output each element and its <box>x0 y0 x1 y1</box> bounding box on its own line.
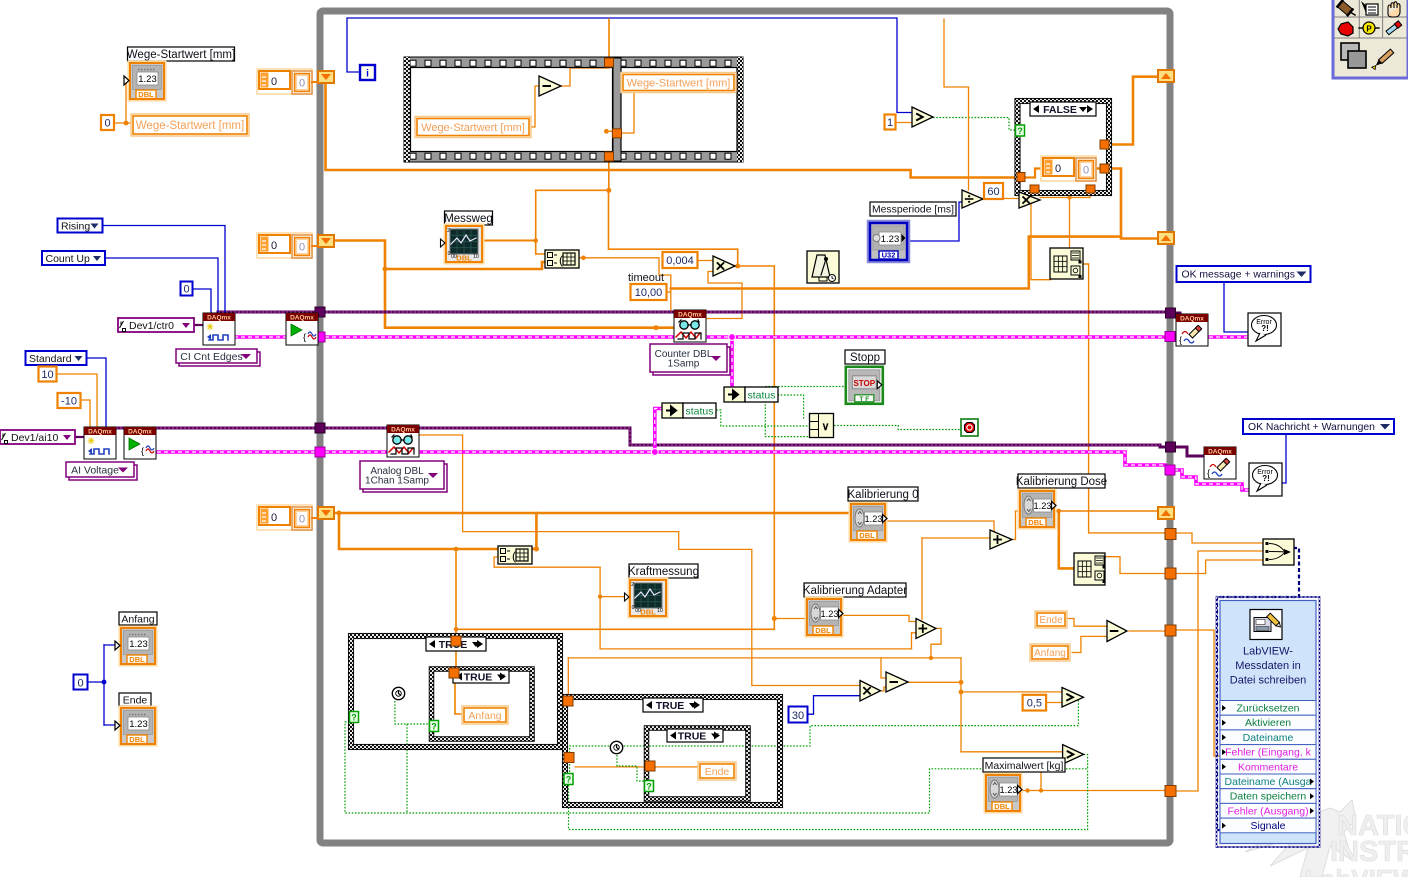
svg-text:Messdaten in: Messdaten in <box>1235 660 1300 672</box>
svg-text:0,5: 0,5 <box>1027 698 1042 710</box>
Wege-Startwert local variable <box>131 114 249 136</box>
wire: Maximalwert out to tunnel4 <box>1020 790 1166 792</box>
svg-text:1.23: 1.23 <box>129 639 148 650</box>
constant 0 blue bottom <box>74 675 88 690</box>
svg-text:Datei schreiben: Datei schreiben <box>1230 675 1306 687</box>
wire: Dev1 ctr0 to create (purple) <box>193 324 203 326</box>
green dotted: greater2 to case selectors <box>345 722 1088 813</box>
Analog DBL dropdown <box>363 464 447 492</box>
Kraftmessung chart terminal <box>629 579 668 618</box>
Wege-Startwert [mm] control <box>129 62 166 101</box>
divide node <box>962 190 983 208</box>
svg-text:10: 10 <box>41 369 53 381</box>
svg-text:0: 0 <box>1083 165 1089 177</box>
loop tunnel purple 2 <box>1166 442 1176 452</box>
svg-text:{: { <box>303 332 306 342</box>
svg-text:0: 0 <box>299 78 305 90</box>
Kalibrierung Dose control <box>1019 490 1056 529</box>
wire: build2 out to tunnel <box>1104 557 1166 574</box>
wire: OK Nachricht dropdown to error2 (blue) <box>1282 433 1286 483</box>
svg-text:30: 30 <box>792 710 804 722</box>
svg-text:Kalibrierung Dose: Kalibrierung Dose <box>1016 476 1107 488</box>
wire: Maximalwert branch to greater2 <box>1041 758 1063 790</box>
svg-text:Rising: Rising <box>61 220 90 232</box>
case structure 3 (outer TRUE) <box>565 697 780 805</box>
Standard enum <box>26 351 87 365</box>
svg-text:2: 2 <box>447 228 450 234</box>
case3 top tunnel <box>563 696 573 706</box>
constant 0,5 <box>1023 695 1047 711</box>
svg-text:Signale: Signale <box>1250 820 1285 832</box>
case1 clock icon <box>392 687 404 699</box>
loop tunnel purple 1 <box>1166 308 1176 318</box>
svg-text:Wege-Startwert [mm]: Wege-Startwert [mm] <box>127 49 235 61</box>
svg-text:Anfang: Anfang <box>1034 648 1066 659</box>
index array node <box>545 250 579 268</box>
wire: read count out up to multiply <box>706 272 742 319</box>
or compound node <box>810 414 834 438</box>
wire: 0 to Anfang Ende controls (blue) <box>88 681 104 683</box>
svg-text:DBL: DBL <box>1028 518 1044 527</box>
shift register right 3 <box>1158 507 1174 519</box>
Anfang local variable <box>1030 644 1070 661</box>
svg-text:Ende: Ende <box>123 694 148 706</box>
svg-text:10: 10 <box>657 608 663 614</box>
svg-text:0: 0 <box>448 251 451 257</box>
wire: 0,5 to greater1 <box>1046 702 1062 704</box>
case2 selector terminal <box>430 721 439 732</box>
svg-text:10: 10 <box>473 254 479 260</box>
svg-text:DAQmx: DAQmx <box>1208 449 1232 456</box>
svg-text:?: ? <box>566 775 572 785</box>
status unbundle 2 <box>662 403 683 418</box>
svg-text:CI Cnt Edges: CI Cnt Edges <box>180 351 242 363</box>
svg-text:0: 0 <box>299 242 305 254</box>
constant 0 blue <box>181 282 193 296</box>
Messperiode U32 control <box>868 221 909 262</box>
svg-text:FALSE: FALSE <box>1043 104 1077 116</box>
wire: i terminal to greater-than (blue) <box>347 18 912 113</box>
svg-text:DAQmx: DAQmx <box>128 429 152 436</box>
DAQmx read counter <box>674 310 706 342</box>
wire: tunnel to merge signals 1 <box>1176 533 1263 543</box>
Anfang label <box>119 612 157 625</box>
Dev1/ctr0 ring <box>118 318 194 332</box>
svg-text:DBL: DBL <box>859 531 875 540</box>
loop tunnel purple left 2 <box>315 423 325 433</box>
wire: left shift register 1 long horizontal <box>326 83 1018 178</box>
svg-text:?: ? <box>351 713 357 723</box>
svg-text:?!: ?! <box>1262 474 1270 483</box>
add node 1 <box>990 530 1012 549</box>
svg-text:Dateiname (Ausga: Dateiname (Ausga <box>1225 776 1312 788</box>
svg-text:TRUE: TRUE <box>678 731 707 743</box>
wire: drop into case1 to Anfang local <box>455 549 457 640</box>
purple task wire 1 outside <box>1175 312 1180 315</box>
wire: sequence frame1 local to decrement <box>531 86 539 127</box>
wire: branch down to build2 <box>1059 511 1074 568</box>
DAQmx create channel CI <box>203 313 235 345</box>
status unbundle 1 <box>724 387 745 402</box>
wire: tunnel2 to merge signals 3 <box>1176 560 1263 574</box>
svg-text:DBL: DBL <box>456 254 472 263</box>
wire: sequence top tunnel vertical <box>608 19 610 58</box>
svg-text:TRUE: TRUE <box>464 672 493 684</box>
wire: Kalibrierung 0 to add <box>886 521 994 531</box>
Maximalwert label <box>983 758 1065 772</box>
svg-text:Aktivieren: Aktivieren <box>1245 717 1291 729</box>
svg-text:DAQmx: DAQmx <box>1180 316 1204 323</box>
svg-text:Messperiode [ms]: Messperiode [ms] <box>872 205 954 216</box>
svg-text:Anfang: Anfang <box>121 613 154 625</box>
loop tunnel orange right 533 <box>1165 529 1176 540</box>
multiply node <box>713 256 735 276</box>
case FALSE left tunnel <box>1017 173 1025 182</box>
magenta branch to status1 <box>730 337 734 387</box>
sequence tunnel middle <box>613 129 622 138</box>
svg-text:1.23: 1.23 <box>138 74 157 85</box>
sequence tunnel top <box>605 58 614 67</box>
greater than top <box>912 107 933 127</box>
shift register right 1 <box>1158 70 1174 82</box>
svg-text:DAQmx: DAQmx <box>678 312 702 319</box>
svg-text:DBL: DBL <box>138 90 154 99</box>
cluster constant 3 <box>257 505 312 530</box>
svg-text:✳: ✳ <box>87 436 95 446</box>
svg-text:OK Nachricht + Warnungen: OK Nachricht + Warnungen <box>1248 422 1375 433</box>
svg-text:0: 0 <box>299 514 305 526</box>
wire: into case false left tunnel inner <box>1024 169 1041 178</box>
svg-text:Dateiname: Dateiname <box>1243 732 1294 744</box>
palette tool: probe <box>1363 22 1375 34</box>
case4 left tunnel <box>645 761 655 771</box>
palette tool: set color squares <box>1341 43 1359 60</box>
wire: 0 to Wege-Startwert control and local <box>114 122 126 124</box>
svg-text:Dev1/ctr0: Dev1/ctr0 <box>129 320 174 332</box>
svg-text:{: { <box>1179 335 1182 345</box>
wire: timeout constant to junction <box>666 291 671 293</box>
constant 30 blue <box>789 707 808 723</box>
Rising enum <box>58 219 103 233</box>
wire: divide-60-multiply chain <box>982 198 1019 200</box>
tools palette window <box>1333 0 1408 78</box>
svg-text:0: 0 <box>271 240 277 252</box>
svg-text:1.23: 1.23 <box>865 514 883 524</box>
Messweg chart terminal <box>445 225 484 264</box>
Kalibrierung 0 label <box>848 487 918 501</box>
svg-text:?: ? <box>1017 126 1023 136</box>
svg-text:i: i <box>366 69 369 80</box>
sequence tunnel bottom <box>605 152 614 161</box>
svg-text:Kommentare: Kommentare <box>1238 761 1298 773</box>
svg-text:0: 0 <box>271 512 277 524</box>
wire: multiply out right and long down <box>738 266 775 619</box>
svg-text:1Chan 1Samp: 1Chan 1Samp <box>365 475 429 486</box>
green dotted: or gate to loop condition <box>834 426 961 430</box>
OK Nachricht + Warnungen dropdown <box>1243 419 1394 434</box>
svg-text:Ende: Ende <box>1039 615 1063 626</box>
case1 selector terminal <box>350 712 359 723</box>
DAQmx read analog <box>387 425 419 457</box>
wire: build1 out down to tunnel <box>1082 264 1167 533</box>
DAQmx create channel AI <box>84 427 116 459</box>
purple task wire 2 outside <box>1175 447 1204 456</box>
wire: Anfang local to subtract3 <box>1072 636 1107 652</box>
wire: shift register 3 down to index array 2 <box>339 513 498 549</box>
cluster constant in FALSE case <box>1041 156 1096 181</box>
palette tool: position hand <box>1388 2 1400 17</box>
palette tool: operate value <box>1361 1 1369 13</box>
loop tunnel magenta 2 <box>1165 465 1175 475</box>
loop tunnel magenta 1 <box>1165 332 1175 342</box>
Ende label <box>119 693 151 706</box>
svg-text:status: status <box>747 390 775 402</box>
express vi icon <box>1250 610 1282 640</box>
subtract node 2 <box>886 672 908 692</box>
case FALSE right tunnel 1 <box>1100 140 1109 149</box>
wire: sequence divider stub <box>606 130 612 132</box>
svg-text:0: 0 <box>271 76 277 88</box>
svg-text:P: P <box>1366 25 1372 34</box>
magenta error wire 2 <box>157 452 1165 465</box>
constant -10 <box>58 393 81 408</box>
svg-text:1.23: 1.23 <box>1000 785 1018 795</box>
local variable frame1 <box>415 117 531 138</box>
svg-text:10,00: 10,00 <box>635 287 663 299</box>
wire: index2 lower hook to chart line <box>494 557 600 567</box>
svg-text:T F: T F <box>859 396 869 403</box>
svg-text:Zurücksetzen: Zurücksetzen <box>1236 703 1299 715</box>
Wege-Startwert [mm] label <box>128 47 235 61</box>
shift register left 1 <box>318 71 334 83</box>
svg-text:U32: U32 <box>882 251 896 260</box>
Ende control <box>120 707 157 746</box>
Anfang control <box>120 627 157 666</box>
Maximalwert control <box>985 774 1022 813</box>
green dotted: clock3 to case4 selector <box>617 755 645 781</box>
cluster constant 2 <box>257 233 312 258</box>
wire: tunnel3 to express vi error input <box>1176 630 1221 756</box>
wire: add2 out zigzag down <box>931 628 941 658</box>
wait ms metronome node <box>807 251 839 283</box>
wire: index array out under constant <box>579 258 671 310</box>
wires: Standard 10 -10 to create2 <box>86 358 106 427</box>
magenta error 1 to dialog <box>1209 335 1248 339</box>
svg-text:1.23: 1.23 <box>129 719 148 730</box>
svg-text:✳: ✳ <box>206 322 214 332</box>
svg-text:0: 0 <box>77 678 83 690</box>
svg-text:Stopp: Stopp <box>850 352 880 364</box>
svg-text:DBL: DBL <box>640 608 656 617</box>
wire: left shift register 2 path <box>331 241 545 270</box>
case structure FALSE <box>1018 101 1110 193</box>
case4 selector terminal <box>645 781 654 792</box>
error dialog 2 <box>1249 463 1282 496</box>
Kalibrierung Adapter control <box>806 598 843 637</box>
wire: 30 to multiply4 (blue) <box>808 696 861 715</box>
case3 selector terminal <box>564 774 573 785</box>
case2 top tunnel <box>449 668 459 678</box>
wire: index2 out up to line 513 <box>535 513 538 549</box>
shift register right 2 <box>1158 232 1174 244</box>
constant 10 <box>39 367 57 382</box>
svg-text:0,004: 0,004 <box>666 255 694 267</box>
shift register left 2 <box>318 235 334 247</box>
wire: Dev1 ai10 to create2 (purple) <box>75 436 84 438</box>
wire: branch down to build array in1 <box>1069 198 1071 250</box>
svg-text:DBL: DBL <box>994 802 1010 811</box>
wire: long horizontal 629 to cases <box>456 628 774 630</box>
constant 60 <box>984 183 1003 199</box>
build array 1 <box>1050 248 1083 279</box>
loop tunnel orange right 573 <box>1165 568 1176 579</box>
purple task wire 1 <box>218 311 1166 314</box>
loop tunnel orange right 630 <box>1165 625 1176 636</box>
error dialog 1 <box>1248 313 1281 346</box>
Stopp label <box>845 350 885 364</box>
add node 2 <box>916 619 936 639</box>
case structure 1 (outer TRUE) <box>351 636 560 747</box>
wire: sequence branch down to index array <box>536 190 545 254</box>
svg-text:1.23: 1.23 <box>881 234 900 245</box>
svg-text:0: 0 <box>1055 163 1061 175</box>
status dotted wires <box>765 386 846 388</box>
multiply2 node <box>1019 192 1040 208</box>
LabVIEW Messdaten Express VI <box>1217 597 1320 847</box>
constant 10,00 <box>631 284 667 300</box>
green dotted: greater1 to case3 selector <box>570 700 1079 773</box>
svg-text:Wege-Startwert [mm]: Wege-Startwert [mm] <box>136 120 244 132</box>
wire: greater-than to case selector (green dotted) <box>933 118 1017 131</box>
wire: 0,004 to multiply <box>697 260 713 262</box>
multiply node 4 <box>860 681 881 702</box>
svg-text:TRUE: TRUE <box>656 700 685 712</box>
svg-text:STOP: STOP <box>853 379 875 388</box>
wire: junction stub toward adapter <box>774 618 806 620</box>
OK message + warnings dropdown <box>1177 266 1311 282</box>
svg-text:∨: ∨ <box>821 421 829 433</box>
constant 0,004 <box>663 252 698 268</box>
wire: branch down to long horizontal at 327 <box>385 269 677 328</box>
svg-text:DAQmx: DAQmx <box>391 427 415 434</box>
svg-text:Dev1/ai10: Dev1/ai10 <box>11 432 58 444</box>
merge signals node <box>1263 539 1294 565</box>
wire: OK message dropdown to error dialog (blue) <box>1224 282 1248 332</box>
case structure 4 (inner TRUE) <box>647 728 749 799</box>
svg-text:status: status <box>685 406 713 418</box>
svg-text:Count Up: Count Up <box>46 253 91 265</box>
case FALSE right tunnel 2 <box>1100 164 1109 173</box>
Dev1/ai10 ring <box>0 430 75 444</box>
svg-text:0: 0 <box>104 117 110 129</box>
iteration terminal i <box>360 65 375 80</box>
case3 clock icon <box>610 741 622 753</box>
Kalibrierung Dose label <box>1018 474 1105 488</box>
wire: case right tunnel to top-right shift register <box>1109 77 1158 145</box>
svg-text:{: { <box>141 446 144 456</box>
wire: add input vertical <box>922 537 990 539</box>
wires: Rising CountUp 0 to DAQmx create (blue) <box>102 226 225 314</box>
wire cluster1 to SR <box>312 81 318 83</box>
svg-text:Anfang: Anfang <box>468 710 501 722</box>
svg-text:Fehler (Eingang, k: Fehler (Eingang, k <box>1225 747 1312 759</box>
green dotted: case3 selector down to long line <box>569 769 1088 830</box>
wire: to greater1 <box>961 691 1062 693</box>
wire: analog read out to multiply4 <box>419 435 860 686</box>
svg-text:1Samp: 1Samp <box>668 358 700 369</box>
svg-text:Daten speichern: Daten speichern <box>1230 791 1307 803</box>
wire: Messperiode to divide (blue) <box>905 202 963 241</box>
Kalibrierung 0 control <box>850 503 887 542</box>
svg-text:AI Voltage: AI Voltage <box>71 464 119 476</box>
svg-text:2: 2 <box>631 582 634 588</box>
Messweg label <box>445 211 493 225</box>
case FALSE bottom tunnels <box>1030 185 1039 193</box>
local variable frame2 <box>621 73 736 93</box>
wire: junction vertical down <box>960 658 962 752</box>
while loop border <box>320 11 1170 843</box>
palette tool: brush <box>1371 49 1394 70</box>
case structure 2 (inner TRUE) <box>432 669 533 739</box>
subtract node 3 <box>1107 621 1127 642</box>
purple task wire 2 <box>116 428 1166 447</box>
case FALSE selector terminal <box>1016 125 1025 136</box>
palette tool: wiring spool <box>1336 0 1355 17</box>
green dotted: branch down from case2 line <box>406 724 408 813</box>
wire: branch down to line 648 <box>599 629 601 649</box>
case1 top tunnel <box>451 636 461 646</box>
greater node 2 <box>1063 745 1084 765</box>
AI Voltage dropdown <box>69 465 137 480</box>
svg-text:DAQmx: DAQmx <box>290 315 314 322</box>
loop tunnel magenta left 1 <box>315 332 325 342</box>
svg-text:{: { <box>1207 468 1210 478</box>
svg-text:DAQmx: DAQmx <box>207 315 231 322</box>
magenta branch to status2 <box>655 409 663 453</box>
wire: multiply out up into sequence <box>609 190 738 266</box>
DAQmx start task 1 <box>286 313 318 345</box>
case3 left tunnel <box>564 753 574 763</box>
svg-text:Wege-Startwert [mm]: Wege-Startwert [mm] <box>627 77 731 89</box>
flat sequence structure <box>404 57 743 162</box>
loop tunnel purple left 1 <box>315 307 325 317</box>
svg-text:timeout: timeout <box>628 272 664 284</box>
cluster constant 1 <box>257 69 312 94</box>
svg-text:?: ? <box>431 722 437 732</box>
magenta error wire 1 <box>234 335 1165 339</box>
Counter DBL 1Samp dropdown <box>653 347 730 375</box>
wire: Kalibrierung Adapter to add2 <box>842 615 916 621</box>
constant 0 orange <box>101 115 114 130</box>
CI Cnt Edges dropdown <box>179 352 260 366</box>
wire: subtract2 out to junction <box>908 681 961 683</box>
green dotted: clock1 to case2 selector <box>395 701 431 724</box>
svg-text:Fehler (Ausgang): Fehler (Ausgang) <box>1227 805 1308 817</box>
DAQmx clear 1 <box>1176 314 1208 346</box>
palette tool: color copy eyedropper <box>1386 21 1402 35</box>
wire: long line 658 <box>568 657 961 659</box>
wire: tunnel4 to merge signals 2 <box>1176 551 1263 791</box>
wire: right vertical into divide node <box>944 19 969 190</box>
loop tunnel magenta left 2 <box>315 447 325 457</box>
Kalibrierung Adapter label <box>804 583 906 597</box>
wire: subtract3 out to tunnel <box>1129 630 1166 632</box>
National Instruments watermark logo <box>1245 800 1356 877</box>
wire: chart feed <box>600 596 629 598</box>
wire: case cluster out to right shift register <box>1092 169 1158 239</box>
svg-text:1: 1 <box>887 117 893 129</box>
wire: case tunnel1 down to build array in2 <box>1031 193 1051 280</box>
